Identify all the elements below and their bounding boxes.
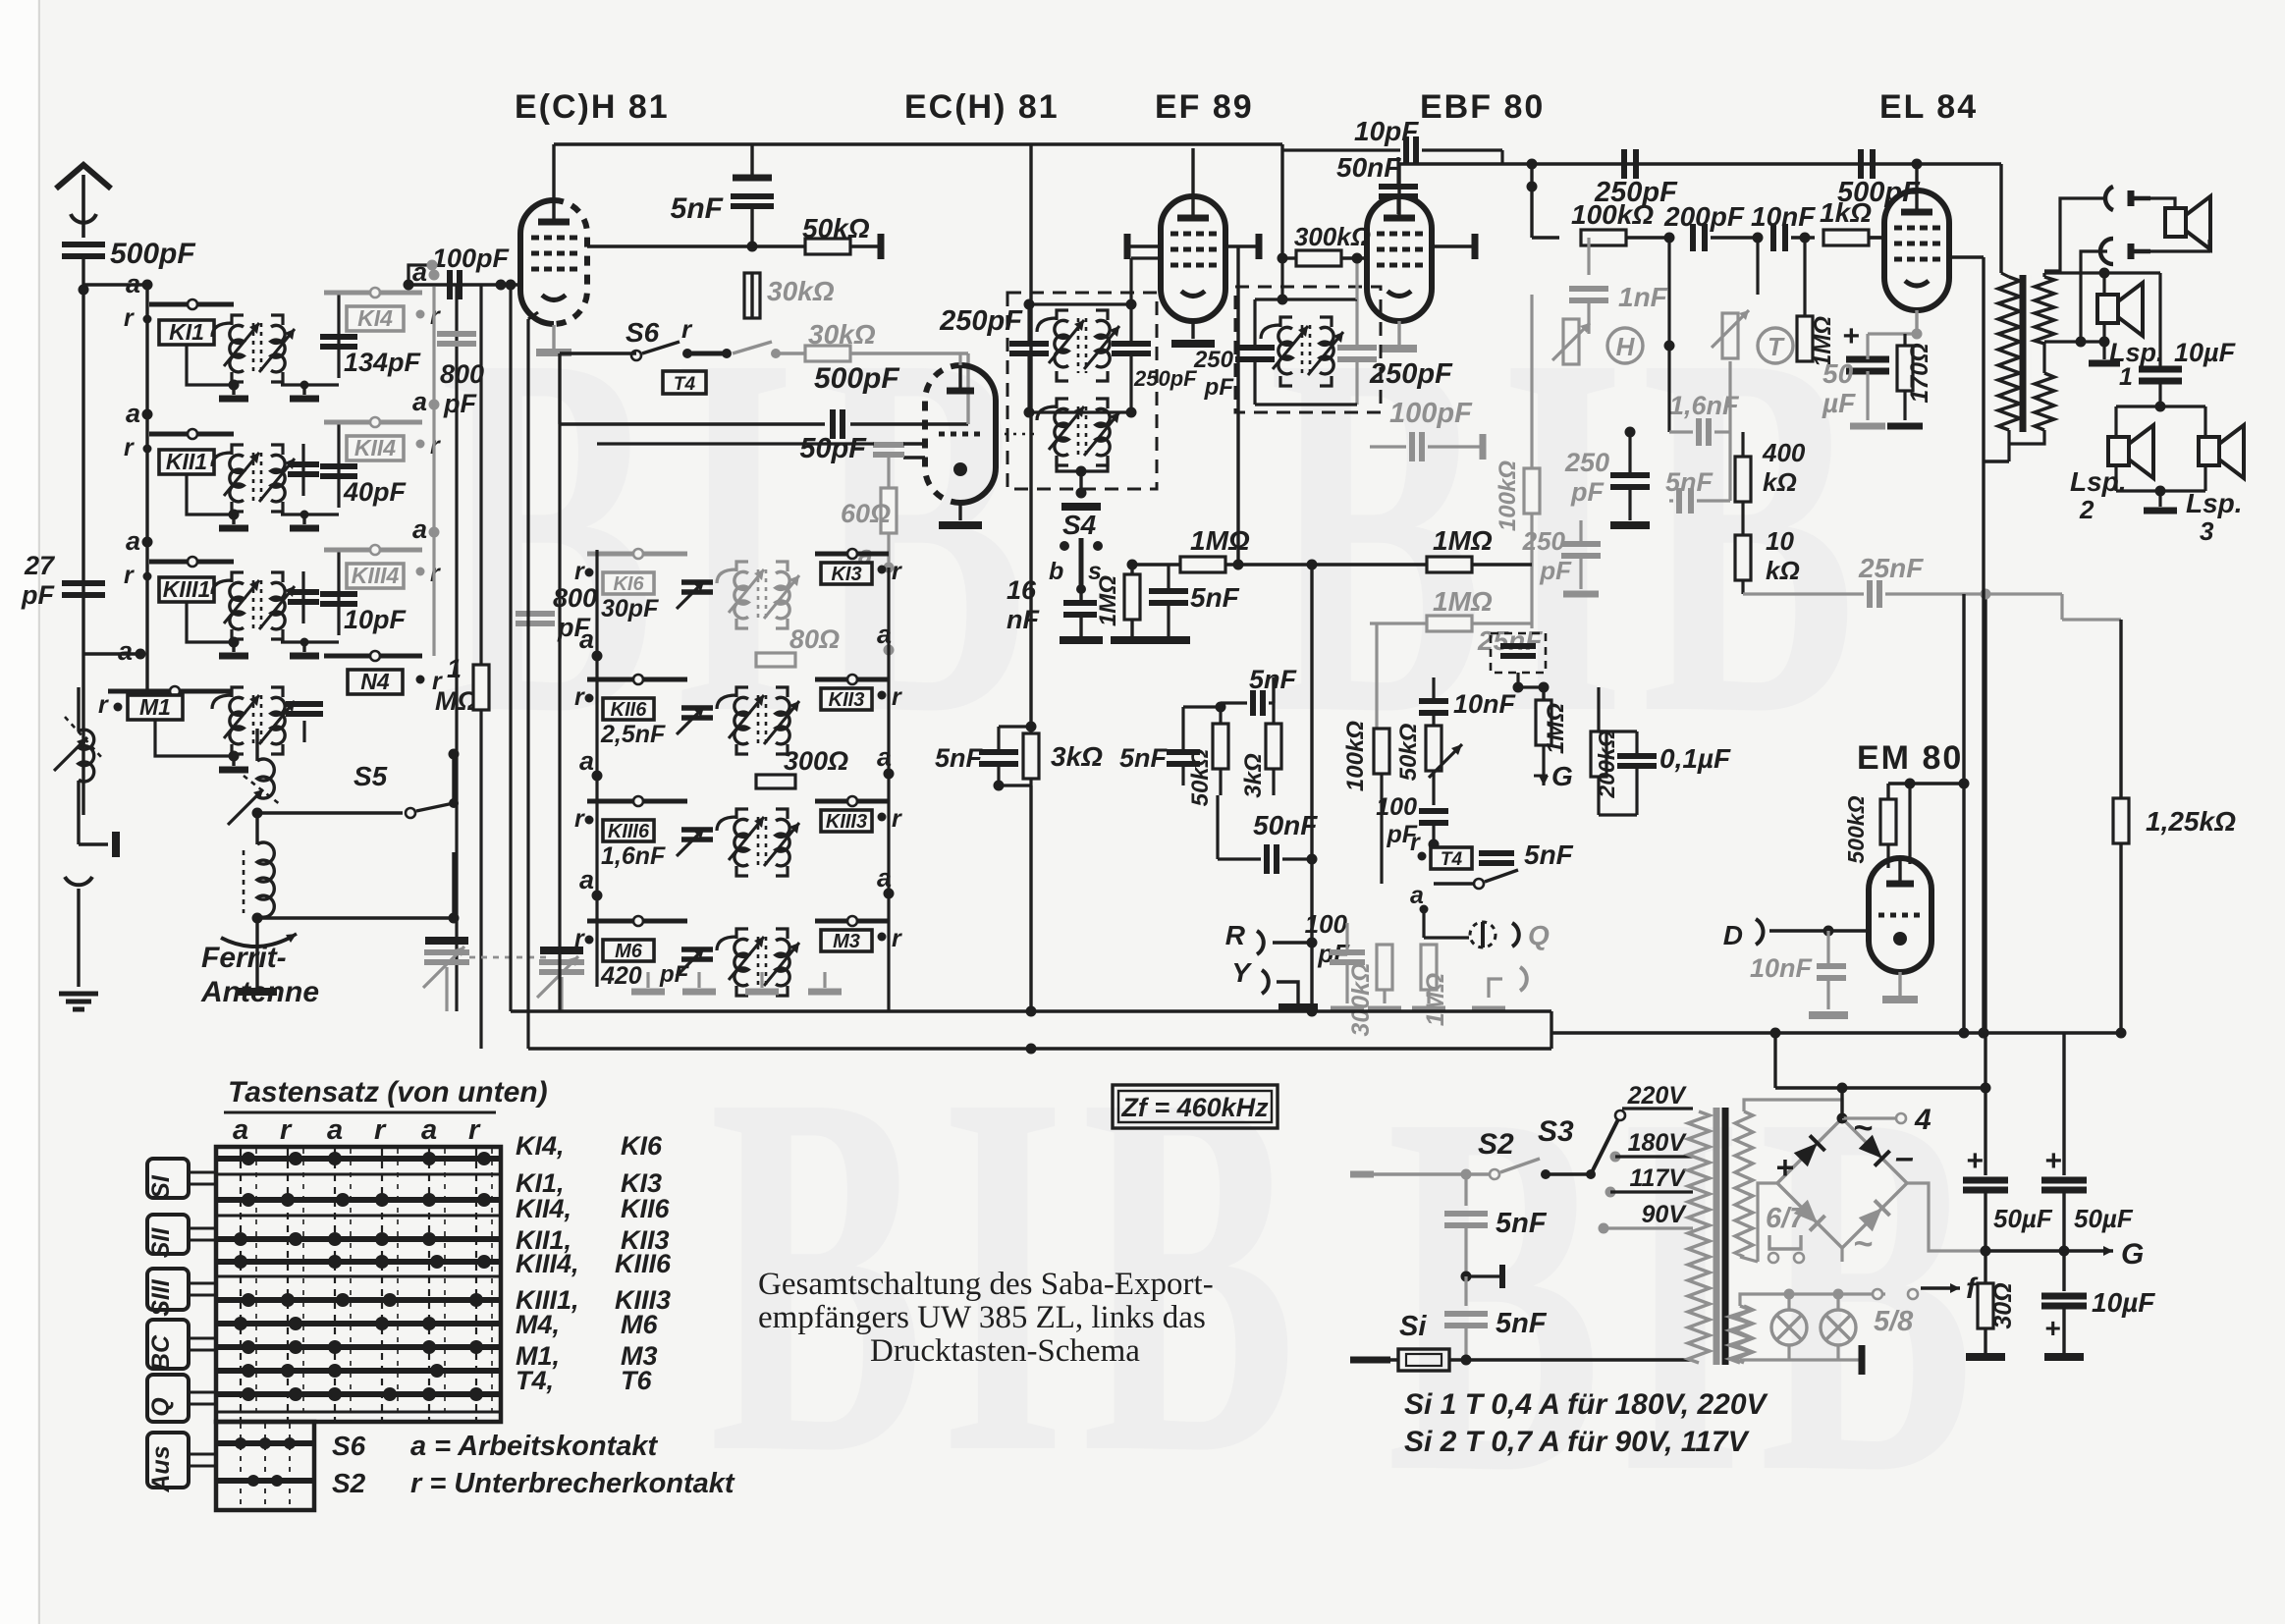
svg-text:S5: S5: [354, 761, 388, 791]
svg-text:pF: pF: [1570, 477, 1605, 507]
svg-text:800: 800: [440, 359, 484, 389]
svg-text:SI: SI: [147, 1174, 175, 1199]
svg-text:~: ~: [1853, 1225, 1873, 1263]
svg-text:170Ω: 170Ω: [1906, 343, 1933, 403]
svg-text:25nF: 25nF: [1477, 625, 1543, 656]
svg-text:80Ω: 80Ω: [789, 624, 840, 654]
svg-text:Aus: Aus: [147, 1445, 175, 1492]
K bank row KII: [574, 675, 902, 754]
svg-text:EC(H) 81: EC(H) 81: [904, 88, 1060, 126]
svg-text:+: +: [1966, 1145, 1984, 1177]
svg-text:50kΩ: 50kΩ: [1395, 723, 1422, 781]
svg-text:Si 1 T 0,4 A für 180V, 220V: Si 1 T 0,4 A für 180V, 220V: [1404, 1388, 1769, 1421]
caption: [758, 1267, 1214, 1369]
svg-text:5nF: 5nF: [1119, 743, 1169, 773]
svg-text:Si 2 T 0,7 A für 90V, 117V: Si 2 T 0,7 A für 90V, 117V: [1404, 1426, 1751, 1458]
svg-text:G: G: [2121, 1238, 2144, 1271]
svg-text:Gesamtschaltung des Saba-Exp: Gesamtschaltung des Saba-Export-: [758, 1267, 1214, 1302]
svg-text:pF: pF: [557, 613, 591, 642]
svg-text:EL 84: EL 84: [1879, 88, 1978, 126]
svg-text:30kΩ: 30kΩ: [767, 276, 835, 306]
svg-text:27: 27: [24, 551, 56, 580]
svg-text:0,1µF: 0,1µF: [1659, 743, 1731, 774]
svg-text:Lsp.: Lsp.: [2186, 488, 2243, 518]
svg-text:420: 420: [600, 962, 642, 990]
svg-text:a = Arbeitskontakt: a = Arbeitskontakt: [410, 1431, 658, 1462]
svg-text:a: a: [126, 399, 140, 428]
svg-text:S4: S4: [1062, 510, 1097, 540]
svg-text:50µF: 50µF: [2074, 1204, 2134, 1233]
svg-text:KIII6: KIII6: [615, 1249, 672, 1278]
svg-text:M3: M3: [833, 931, 860, 952]
antenna & 500pF: [56, 165, 195, 296]
svg-text:T: T: [1768, 332, 1785, 361]
svg-text:134pF: 134pF: [344, 348, 422, 377]
svg-text:1MΩ: 1MΩ: [1433, 525, 1493, 556]
svg-text:KIII4: KIII4: [352, 563, 400, 588]
svg-text:3kΩ: 3kΩ: [1051, 741, 1103, 772]
svg-text:250: 250: [1564, 448, 1609, 477]
svg-text:b: b: [1049, 558, 1063, 585]
K bank grounds: [631, 972, 842, 992]
EBF coupling: [1278, 116, 1503, 266]
svg-text:KIII1: KIII1: [163, 576, 211, 602]
svg-text:100pF: 100pF: [432, 244, 511, 273]
svg-text:BIB: BIB: [1387, 1005, 1990, 1582]
svg-text:r: r: [280, 1114, 293, 1146]
svg-text:6/7: 6/7: [1766, 1203, 1807, 1234]
svg-text:S2: S2: [332, 1468, 366, 1498]
svg-text:10µF: 10µF: [2092, 1287, 2155, 1318]
svg-text:r: r: [574, 683, 585, 711]
svg-text:S6: S6: [626, 317, 660, 348]
svg-text:r: r: [892, 925, 902, 952]
svg-text:pF: pF: [659, 961, 690, 988]
IF transformer 1 S4: [939, 258, 1197, 640]
svg-text:–: –: [1895, 1139, 1914, 1176]
svg-text:90V: 90V: [1642, 1201, 1688, 1228]
svg-text:30Ω: 30Ω: [1989, 1282, 2017, 1328]
svg-text:KII4,: KII4,: [516, 1194, 571, 1223]
svg-text:5nF: 5nF: [935, 743, 984, 773]
mid rails: [506, 280, 890, 1050]
svg-text:1,6nF: 1,6nF: [601, 842, 666, 870]
svg-text:a: a: [126, 526, 140, 556]
svg-text:S6: S6: [332, 1431, 366, 1461]
svg-text:Drucktasten-Schema: Drucktasten-Schema: [870, 1333, 1140, 1369]
svg-text:pF: pF: [1204, 374, 1235, 401]
svg-text:+: +: [1775, 1150, 1794, 1185]
svg-text:R: R: [1225, 920, 1246, 950]
svg-text:Si: Si: [1399, 1311, 1427, 1342]
svg-text:300kΩ: 300kΩ: [1294, 222, 1371, 251]
svg-text:KI4: KI4: [357, 305, 393, 331]
svg-text:1MΩ: 1MΩ: [1422, 973, 1449, 1026]
svg-text:50nF: 50nF: [1336, 152, 1401, 183]
svg-text:a: a: [412, 257, 427, 287]
svg-text:r: r: [374, 1114, 387, 1146]
svg-text:a: a: [579, 865, 594, 894]
svg-text:60Ω: 60Ω: [841, 499, 891, 528]
bandfilter KIII row: [124, 514, 441, 656]
svg-text:500pF: 500pF: [110, 238, 195, 270]
svg-text:T4: T4: [674, 374, 696, 395]
1.25k: [2113, 620, 2236, 1033]
svg-text:+: +: [2044, 1145, 2062, 1177]
Zf box: [1113, 1085, 1278, 1128]
svg-text:50nF: 50nF: [1253, 810, 1318, 840]
svg-text:Q: Q: [1528, 920, 1550, 950]
matrix labels: [410, 1131, 735, 1499]
svg-text:kΩ: kΩ: [1766, 556, 1800, 585]
svg-text:1MΩ: 1MΩ: [1095, 575, 1121, 626]
svg-text:250: 250: [1522, 526, 1566, 556]
svg-text:50µF: 50µF: [1993, 1204, 2053, 1233]
svg-text:M1: M1: [139, 694, 171, 720]
svg-text:10pF: 10pF: [1354, 116, 1419, 146]
svg-text:Ferrit-: Ferrit-: [201, 942, 287, 974]
EL84 cathode tone: [1552, 233, 1933, 427]
svg-text:5nF: 5nF: [1496, 1208, 1548, 1239]
right bus: [1979, 461, 1989, 1039]
svg-text:a: a: [412, 387, 427, 416]
pilot lamps: [1729, 1272, 1979, 1375]
svg-text:BC: BC: [147, 1334, 175, 1371]
svg-text:S2: S2: [1478, 1128, 1514, 1161]
svg-text:100pF: 100pF: [1389, 398, 1473, 429]
svg-text:100: 100: [1305, 909, 1348, 939]
bottom buses: [511, 1006, 2127, 1055]
svg-text:1,25kΩ: 1,25kΩ: [2146, 806, 2236, 837]
svg-text:r: r: [574, 925, 585, 952]
svg-text:400: 400: [1762, 438, 1806, 467]
svg-text:5/8: 5/8: [1874, 1306, 1914, 1337]
R Y terminals: [1225, 909, 1350, 1007]
svg-text:Tastensatz (von unten): Tastensatz (von unten): [228, 1076, 548, 1109]
svg-text:10pF: 10pF: [344, 605, 408, 634]
svg-text:10nF: 10nF: [1453, 689, 1517, 719]
svg-text:EF 89: EF 89: [1155, 88, 1254, 126]
svg-text:a: a: [579, 746, 594, 776]
svg-text:KII6: KII6: [621, 1194, 671, 1223]
svg-text:KII1: KII1: [166, 449, 207, 474]
ECH screen cluster: [935, 144, 1103, 1012]
svg-text:40pF: 40pF: [343, 477, 408, 507]
EF89 screen cluster: [1119, 665, 1318, 874]
svg-text:250pF: 250pF: [1369, 358, 1453, 390]
svg-text:µF: µF: [1822, 388, 1856, 418]
svg-text:5nF: 5nF: [671, 192, 724, 225]
tuning gang: [423, 941, 584, 1011]
svg-text:N4: N4: [360, 669, 390, 694]
svg-text:empfängers UW 385 ZL, links: empfängers UW 385 ZL, links das: [758, 1300, 1206, 1335]
svg-text:250: 250: [1193, 347, 1234, 373]
svg-text:EM 80: EM 80: [1857, 739, 1963, 777]
svg-text:D: D: [1723, 920, 1743, 950]
svg-text:r: r: [574, 805, 585, 833]
bandfilter M row: [83, 636, 443, 770]
svg-text:r: r: [468, 1114, 481, 1146]
svg-text:10nF: 10nF: [1750, 953, 1814, 983]
svg-text:Zf = 460kHz: Zf = 460kHz: [1120, 1093, 1269, 1122]
svg-text:~: ~: [1853, 1110, 1873, 1147]
svg-text:Lsp.: Lsp.: [2109, 338, 2164, 367]
svg-text:r: r: [892, 683, 902, 711]
svg-text:E(C)H 81: E(C)H 81: [515, 88, 670, 126]
connector boxes: [147, 1159, 216, 1493]
decor: [440, 246, 1990, 1582]
svg-text:100kΩ: 100kΩ: [1571, 199, 1654, 230]
svg-text:250pF: 250pF: [939, 305, 1023, 337]
extra caps KII KIII: [288, 444, 319, 623]
svg-text:M6: M6: [621, 1310, 658, 1339]
svg-text:300kΩ: 300kΩ: [1347, 962, 1375, 1036]
svg-text:100kΩ: 100kΩ: [1495, 460, 1521, 531]
svg-text:r: r: [892, 558, 902, 585]
EL84 grid chain: [1527, 159, 1885, 252]
svg-text:1MΩ: 1MΩ: [1433, 586, 1493, 617]
svg-text:pF: pF: [443, 389, 477, 418]
filter caps: [1963, 1033, 2155, 1357]
svg-text:2,5nF: 2,5nF: [600, 721, 666, 748]
power transformer: [1688, 1100, 1758, 1365]
K bank labels: [516, 583, 895, 988]
svg-text:r: r: [1410, 829, 1421, 856]
svg-text:r: r: [124, 304, 135, 332]
G bias divider: [1518, 682, 1731, 816]
anode chain ECH81: [554, 144, 1282, 318]
svg-text:SIII: SIII: [147, 1278, 175, 1317]
rails 800pF 1MOhm: [147, 285, 489, 1049]
IF transformer 2: [1193, 253, 1483, 462]
svg-text:+: +: [2044, 1313, 2060, 1343]
svg-text:nF: nF: [1006, 605, 1040, 634]
K bank row KI: [574, 549, 902, 628]
svg-text:M6: M6: [615, 941, 643, 962]
svg-text:+: +: [1842, 320, 1860, 352]
svg-text:EBF 80: EBF 80: [1420, 88, 1545, 126]
svg-text:G: G: [1551, 761, 1573, 791]
svg-text:a: a: [327, 1114, 343, 1146]
bridge rectifier: [1758, 1028, 1986, 1264]
svg-text:pF: pF: [1539, 556, 1572, 585]
tube EBF80: [1367, 88, 1545, 349]
tube ECH81: [404, 88, 670, 352]
detector cluster: [1330, 623, 1574, 1037]
svg-text:pF: pF: [21, 580, 55, 610]
svg-text:4: 4: [1914, 1104, 1931, 1136]
svg-text:KI6: KI6: [621, 1131, 663, 1161]
svg-text:KIII3: KIII3: [826, 811, 867, 833]
S6 T4 oscillator coupling: [560, 314, 968, 439]
bandfilter KII row: [124, 387, 441, 528]
svg-text:300Ω: 300Ω: [784, 746, 848, 776]
gray 100k 250pF: [1495, 295, 1601, 628]
svg-text:a: a: [1410, 882, 1424, 909]
svg-text:Q: Q: [147, 1397, 175, 1417]
svg-text:a: a: [118, 636, 133, 666]
svg-text:kΩ: kΩ: [1763, 467, 1797, 497]
svg-text:SII: SII: [147, 1227, 175, 1259]
svg-text:3kΩ: 3kΩ: [1240, 753, 1267, 798]
svg-text:KI4,: KI4,: [516, 1131, 565, 1161]
top coupling line: [1399, 149, 2001, 273]
svg-text:S3: S3: [1538, 1115, 1574, 1148]
svg-text:Lsp.: Lsp.: [2070, 466, 2127, 497]
svg-text:r: r: [574, 558, 585, 585]
svg-text:a: a: [412, 514, 427, 544]
AVC 1M row: [1307, 525, 1547, 1012]
svg-text:1nF: 1nF: [1618, 282, 1668, 312]
svg-text:1: 1: [447, 654, 462, 683]
svg-text:r = Unterbrecherkontakt: r = Unterbrecherkontakt: [410, 1468, 735, 1499]
svg-text:KII6: KII6: [611, 699, 648, 721]
svg-text:117V: 117V: [1629, 1164, 1687, 1192]
svg-text:1: 1: [2119, 363, 2133, 391]
svg-text:Y: Y: [1231, 957, 1252, 988]
tube EL84: [1851, 88, 1984, 310]
tastensatz matrix: [216, 1076, 548, 1510]
svg-text:220V: 220V: [1627, 1082, 1688, 1110]
svg-text:KI6: KI6: [613, 573, 644, 595]
svg-text:30kΩ: 30kΩ: [808, 319, 876, 350]
tube ECH81-triode: [903, 88, 1060, 525]
svg-text:M4,: M4,: [516, 1310, 560, 1339]
svg-text:1kΩ: 1kΩ: [1820, 197, 1872, 228]
svg-text:1MΩ: 1MΩ: [1190, 525, 1250, 556]
svg-text:5nF: 5nF: [1524, 839, 1574, 870]
svg-text:T6: T6: [621, 1366, 652, 1395]
grid leak EF89: [1095, 246, 1312, 640]
output transformer: [1984, 257, 2054, 461]
tube EF89: [1127, 88, 1259, 344]
svg-text:2: 2: [2079, 495, 2095, 524]
svg-text:5nF: 5nF: [1496, 1308, 1548, 1339]
K bank row M: [574, 916, 902, 996]
svg-text:r: r: [124, 562, 135, 589]
svg-text:25nF: 25nF: [1858, 553, 1924, 583]
svg-text:100kΩ: 100kΩ: [1342, 721, 1369, 791]
svg-text:T4: T4: [1441, 849, 1463, 870]
svg-text:KII3: KII3: [829, 689, 865, 711]
svg-text:3: 3: [2200, 516, 2214, 546]
svg-text:T4,: T4,: [516, 1366, 554, 1395]
svg-text:KIII6: KIII6: [608, 821, 650, 842]
svg-text:KI3: KI3: [831, 564, 861, 585]
svg-text:30pF: 30pF: [601, 595, 659, 623]
bandfilter KI row: [124, 257, 441, 399]
svg-text:50kΩ: 50kΩ: [1187, 748, 1214, 806]
svg-text:KII4: KII4: [354, 435, 396, 460]
svg-text:H: H: [1616, 332, 1636, 361]
svg-text:r: r: [124, 434, 135, 461]
K bank row KIII: [574, 796, 902, 876]
svg-text:KI1: KI1: [169, 319, 204, 345]
mains input: [1350, 1082, 1769, 1458]
svg-text:100: 100: [1376, 793, 1417, 821]
svg-text:50pF: 50pF: [799, 433, 867, 464]
svg-text:1MΩ: 1MΩ: [1543, 703, 1569, 754]
EL84 feedback divider: [1564, 346, 2121, 620]
svg-text:500kΩ: 500kΩ: [1843, 795, 1869, 863]
svg-text:KIII4,: KIII4,: [516, 1249, 579, 1278]
ferrite antenna / S5: [200, 729, 460, 1008]
svg-text:10µF: 10µF: [2174, 338, 2237, 367]
antenna coil / ground: [21, 290, 120, 1009]
svg-text:5nF: 5nF: [1190, 582, 1240, 613]
svg-text:50: 50: [1823, 358, 1854, 389]
svg-text:180V: 180V: [1628, 1129, 1688, 1157]
svg-text:r: r: [98, 691, 109, 719]
svg-text:250pF: 250pF: [1133, 366, 1197, 391]
50pF 60ohm: [597, 433, 925, 573]
svg-text:Antenne: Antenne: [200, 976, 319, 1008]
svg-text:a: a: [233, 1114, 248, 1146]
svg-text:10: 10: [1766, 526, 1794, 556]
EM80: [1723, 589, 1991, 1034]
svg-text:a: a: [421, 1114, 437, 1146]
svg-text:MΩ: MΩ: [435, 686, 478, 716]
svg-text:r: r: [892, 805, 902, 833]
speakers: [2044, 187, 2244, 546]
svg-text:500pF: 500pF: [814, 362, 899, 395]
